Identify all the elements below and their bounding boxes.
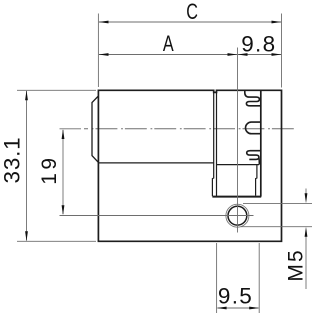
circlip groove left edge [212,92,213,196]
arrow A left [99,53,109,56]
extension line 9.5 left [216,243,218,313]
dimension leader M5 bottom [305,232,307,290]
extension line screw-hole axis (for A and 9.8) / hole vertical centerline [237,48,239,233]
arrow M5 bottom (points up) [305,227,308,237]
dimension line C [99,21,281,23]
coupling plate left edge [260,90,262,196]
arrow C left [99,21,109,24]
svg-text:A: A [163,31,175,56]
extension line right end (for C and 9.8) [281,14,283,88]
arrow 9.5 left [217,307,227,310]
extension line left (front face, for A and C) [97,14,99,88]
extension line M5 bottom [241,226,312,228]
tooth 3 neck to bottom edge [258,158,260,165]
svg-text:9.8: 9.8 [241,32,276,57]
body outline (half-cylinder housing with circlip-groove notch at top) [98,90,281,241]
svg-text:M5: M5 [284,248,307,282]
arrow A right [228,53,238,56]
extension line 19 top (at axis) [60,128,82,130]
svg-text:C: C [186,0,198,25]
svg-text:19: 19 [38,154,61,184]
coupling tooth 3 (spiral wave into bottom edge) [247,151,261,160]
dimension line 33.1 [26,91,28,241]
M5 screw hole thread circle [226,204,249,227]
cylinder bottom edge (right of groove) [217,164,260,166]
arrow 19 bottom [62,205,65,215]
extension line M5 top [243,202,312,204]
chamfer outline (front face) [92,96,98,162]
dimension line 19 [62,130,64,214]
coupling tooth 1 (spiral wave from top edge) [245,90,261,106]
arrow 9.8 left [238,53,248,56]
M5 screw hole core circle [228,206,247,225]
arrow M5 top (points down) [305,193,308,203]
centerline (cylinder axis, dash-dot) [84,128,294,130]
screw-channel bottom edge [212,196,261,198]
circlip groove right edge [216,92,218,196]
screw-channel right inner edge [256,165,257,196]
dimension leader M5 top [305,189,307,199]
dimension line A [99,54,237,56]
arrow 9.5 right [249,307,259,310]
arrow 33.1 bottom [25,231,28,241]
svg-text:33.1: 33.1 [0,137,25,184]
arrow 19 top [62,129,65,139]
extension line 19 bottom / hole horizontal centerline [60,215,254,217]
arrow 9.8 right [272,53,282,56]
extension line 33.1 bottom [17,240,96,242]
dimension line 9.5 [218,307,259,309]
dimension line 9.8 [238,54,281,56]
arrow C right [272,21,282,24]
cylinder bottom edge (left of groove) [98,162,213,164]
coupling tooth 2 (capsule at axis) [245,122,260,134]
extension line 33.1 top [17,89,96,91]
extension line 9.5 right [258,243,260,313]
svg-text:9.5: 9.5 [218,283,253,308]
arrow 33.1 top [25,90,28,100]
